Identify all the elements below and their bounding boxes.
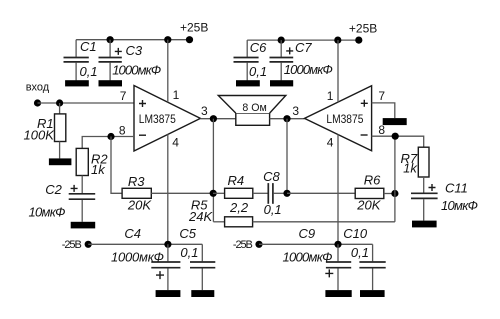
wire node B to R6 <box>287 192 355 194</box>
node B C8-R6 junction <box>283 190 290 197</box>
wire +25V rail right <box>247 39 359 41</box>
svg-text:0,1: 0,1 <box>249 64 267 79</box>
capacitor C9 <box>283 226 352 290</box>
svg-text:C5: C5 <box>179 226 196 241</box>
resistor R6 <box>355 173 384 213</box>
wire pin1 amp1 to +25V <box>167 40 169 102</box>
svg-text:0,1: 0,1 <box>264 202 282 217</box>
svg-text:R3: R3 <box>128 174 145 189</box>
node pin8 amp2 junction <box>392 133 399 140</box>
svg-text:C9: C9 <box>299 226 316 241</box>
resistor R2 <box>76 148 108 193</box>
wire R6 to pin8 net <box>384 193 395 195</box>
node output amp1 (pin 3) <box>201 104 217 122</box>
svg-text:C3: C3 <box>126 43 143 58</box>
svg-text:1: 1 <box>173 88 180 102</box>
wire node A down to R5 <box>213 221 224 223</box>
svg-text:7: 7 <box>120 89 127 103</box>
svg-text:0,1: 0,1 <box>351 245 369 260</box>
resistor R4 <box>225 173 253 215</box>
wire pin1 amp2 to +25V <box>337 40 339 102</box>
wire pin8 amp1 to R2 <box>82 137 134 149</box>
wire R3 to node A <box>151 192 213 194</box>
+25V terminal right <box>349 22 377 44</box>
svg-text:1000мкФ: 1000мкФ <box>284 62 333 77</box>
svg-text:1000мкФ: 1000мкФ <box>112 62 161 77</box>
svg-text:C2: C2 <box>45 182 62 197</box>
ground C10 <box>360 290 385 297</box>
ground C2 <box>71 222 96 229</box>
wire pin4 amp1 to -25V <box>167 134 169 244</box>
ground C7 <box>270 80 293 86</box>
svg-text:LM3875: LM3875 <box>326 112 363 126</box>
wire -25V rail left <box>88 243 202 245</box>
capacitor C3 <box>99 40 162 81</box>
node R6-pin8 junction <box>391 190 398 197</box>
wire -25V rail right <box>259 243 373 245</box>
svg-text:-25В: -25В <box>62 239 82 251</box>
svg-text:4: 4 <box>327 136 334 150</box>
wire output2 vertical <box>286 119 288 194</box>
svg-text:1000мкФ: 1000мкФ <box>111 250 164 265</box>
node rail-pin1 junction amp2 <box>334 37 341 44</box>
svg-text:1k: 1k <box>403 161 418 176</box>
ground pin7 amp2 <box>383 118 407 125</box>
node pin8 amp1 junction <box>107 133 114 140</box>
ground C5 <box>191 290 214 297</box>
wire pin8 net vertical <box>394 136 396 222</box>
svg-text:C10: C10 <box>343 226 368 241</box>
ground C6 <box>236 80 260 86</box>
svg-text:20K: 20K <box>356 197 381 212</box>
svg-text:+25В: +25В <box>349 22 377 36</box>
node A R3-R4-R5 junction <box>210 190 217 197</box>
node -25V C4 junction <box>164 241 171 248</box>
resistor R1 <box>24 103 66 158</box>
svg-text:+25В: +25В <box>180 21 208 35</box>
svg-text:-25В: -25В <box>233 239 253 251</box>
wire output amp1 to speaker <box>200 118 235 120</box>
node output amp2 (pin 3) <box>283 104 299 122</box>
resistor R3 <box>122 174 152 212</box>
svg-text:3: 3 <box>292 104 299 118</box>
capacitor C4 <box>111 226 180 290</box>
op-amp U2 LM3875 <box>305 86 386 151</box>
resistor R5 <box>188 198 253 227</box>
svg-text:1000мкФ: 1000мкФ <box>283 250 333 265</box>
svg-text:C8: C8 <box>263 169 280 184</box>
node rail-C3 junction <box>107 36 114 43</box>
svg-text:вход: вход <box>26 82 50 94</box>
ground C11 <box>412 221 437 228</box>
wire R5 to pin8 amp2 net <box>253 221 395 223</box>
wire node A to R4 <box>213 192 225 194</box>
capacitor C1 <box>64 39 98 81</box>
wire pin4 amp2 to -25V <box>337 134 339 244</box>
svg-text:0,1: 0,1 <box>180 245 198 260</box>
svg-text:R6: R6 <box>364 173 381 188</box>
ground R1 <box>49 158 72 165</box>
вход input terminal <box>26 82 50 107</box>
svg-text:C4: C4 <box>124 226 141 241</box>
node input-R1 junction <box>56 99 63 106</box>
wire feedback vertical pin8 to R3 <box>111 137 122 194</box>
svg-text:C1: C1 <box>80 39 97 54</box>
svg-text:2,2: 2,2 <box>229 200 249 215</box>
svg-text:3: 3 <box>201 104 208 118</box>
svg-text:R4: R4 <box>228 173 245 188</box>
capacitor C8 <box>263 169 282 217</box>
svg-text:1: 1 <box>327 89 334 103</box>
svg-text:7: 7 <box>378 89 385 103</box>
node -25V C9 junction <box>334 241 341 248</box>
speaker 8 Ом <box>218 96 285 126</box>
wire +25V rail left <box>76 39 190 41</box>
op-amp U1 LM3875 <box>119 86 200 152</box>
svg-text:20K: 20K <box>127 198 152 213</box>
capacitor C6 <box>234 40 268 80</box>
svg-text:10мкФ: 10мкФ <box>441 198 478 213</box>
wire speaker to amp2 <box>270 118 305 120</box>
capacitor C2 <box>29 182 96 222</box>
svg-text:C7: C7 <box>295 40 312 55</box>
svg-text:0,1: 0,1 <box>80 64 98 79</box>
resistor R7 <box>401 147 430 192</box>
svg-text:100K: 100K <box>24 127 56 142</box>
capacitor C5 <box>179 226 215 290</box>
node rail-C7 junction <box>278 37 285 44</box>
-25V terminal left <box>62 239 92 251</box>
+25V terminal left <box>180 21 208 44</box>
svg-text:C11: C11 <box>445 180 468 195</box>
svg-text:1k: 1k <box>91 162 106 177</box>
wire input to pin7 <box>38 102 135 104</box>
capacitor C10 <box>343 226 385 290</box>
node rail-pin1 junction amp1 <box>164 36 171 43</box>
capacitor C11 <box>411 180 478 220</box>
svg-text:LM3875: LM3875 <box>139 112 176 126</box>
svg-text:8 Ом: 8 Ом <box>242 102 266 114</box>
-25V terminal right <box>233 239 263 251</box>
ground C3 <box>99 80 123 86</box>
svg-text:24K: 24K <box>188 209 213 224</box>
wire output1 vertical <box>212 119 214 222</box>
ground C1 <box>65 80 89 86</box>
wire pin7 amp2 to ground <box>372 103 395 118</box>
ground C9 <box>325 290 351 297</box>
wire R4 to C8 <box>253 192 268 194</box>
svg-text:C6: C6 <box>250 40 267 55</box>
capacitor C7 <box>270 40 333 80</box>
svg-text:8: 8 <box>119 123 126 137</box>
ground C4 <box>156 290 181 297</box>
wire C8 to node B <box>274 192 287 194</box>
svg-text:4: 4 <box>172 135 179 149</box>
wire pin8 amp2 to R7 <box>372 136 424 147</box>
svg-text:10мкФ: 10мкФ <box>29 204 66 219</box>
